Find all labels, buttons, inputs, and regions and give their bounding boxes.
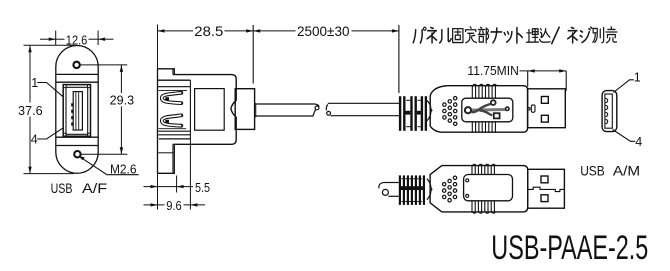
bottom plug cable stub top (384, 182, 399, 184)
side view flange plate (158, 69, 175, 174)
spring contact upper (162, 93, 182, 103)
top plug strain relief middle band (406, 111, 411, 115)
svg-text:USB: USB (51, 181, 73, 196)
spring upper contact nub (165, 97, 169, 100)
dim 37.6 bottom arrowhead (28, 167, 31, 174)
right pin4 leader (613, 130, 636, 142)
flange back edge lower segment (172, 144, 174, 173)
bottom plug neck (427, 179, 432, 200)
dim 28.5 line seg2 (225, 30, 254, 32)
glyph ne2 (568, 28, 577, 43)
shell corner mark TR (88, 85, 91, 88)
dim 28.5 right arrowhead (246, 29, 253, 32)
dim 9.6 line seg1 (144, 204, 165, 206)
contact pin 1 (71, 103, 73, 106)
bottom shell hole lower (541, 195, 548, 202)
shell top line (158, 79, 191, 81)
ext line shell back below (189, 139, 191, 210)
right front view contacts (606, 98, 608, 123)
top plug dots pattern (443, 103, 446, 106)
top plug shell joint dot (528, 108, 530, 110)
contact pin 2 (71, 110, 73, 113)
dim 12.6 left extension line (55, 31, 57, 46)
cable left segment bottom (256, 115, 314, 117)
glyph bu (478, 27, 488, 43)
dim 2500 right arrowhead (392, 29, 399, 32)
bottom plug label plate (464, 175, 513, 201)
top plug label plate (462, 98, 513, 122)
shell right edge (189, 80, 191, 139)
right front view outer (602, 91, 617, 132)
top plug grip ribs lower (472, 122, 495, 132)
bottom plug cable stub hook (379, 183, 384, 189)
side view molded body (173, 75, 236, 145)
shell bottom inner line (158, 130, 190, 132)
top plug shell joint tab (531, 105, 535, 112)
bottom plug cable stub curl circle (382, 189, 388, 195)
plate chord line top2 (56, 81, 98, 83)
plate chord line bottom2 (56, 145, 98, 147)
dim mid extension line (252, 25, 254, 84)
bottom strain relief gap edges (401, 178, 422, 180)
svg-text:4: 4 (31, 132, 38, 146)
shell bottom line (158, 134, 190, 136)
dim 12.6 right arrowhead (98, 38, 105, 41)
glyph to (517, 28, 522, 43)
M2.6 leader arrowhead at hole (79, 156, 85, 160)
svg-text:USB: USB (580, 163, 605, 178)
dim 29.3 bottom extension line (81, 153, 127, 155)
glyph ru (440, 28, 451, 43)
dim 9.6 line seg2 (184, 204, 206, 206)
japanese note: panel fixing nut embedded / screw sold separately (413, 27, 617, 44)
dim 12.6 inner stubs (56, 38, 65, 40)
top shell hole lower (541, 115, 548, 122)
boot cable step (255, 103, 256, 116)
dim 28.5 left extension line (157, 25, 159, 69)
shell bottom outer line (159, 138, 191, 140)
flange screw hole hidden line (158, 152, 173, 154)
dim 37.6 line upper segment (29, 45, 31, 102)
bottom plug grip rib bumps upper (473, 164, 495, 165)
svg-text:M2.6: M2.6 (110, 163, 137, 177)
trident down branch (480, 111, 493, 116)
bottom plug metal shell (528, 169, 565, 208)
cable break left curl (315, 104, 320, 107)
glyph betsu (593, 28, 604, 43)
svg-text:1: 1 (31, 76, 38, 90)
svg-text:A/M: A/M (613, 163, 640, 178)
spring contact lower (162, 115, 182, 125)
svg-text:2500±30: 2500±30 (297, 24, 350, 39)
dim 5.5 line (144, 186, 194, 188)
plate chord line top1 (56, 73, 98, 75)
trident right tip circle (506, 107, 509, 110)
glyph small tsu (504, 32, 512, 43)
glyph pa (413, 27, 426, 43)
panel plate front view outline (56, 46, 98, 174)
bottom plug grip ribs lower (472, 201, 494, 212)
shell top inner line2 (158, 90, 187, 92)
dim 29.3 top arrowhead (120, 65, 123, 72)
shell top inner line (158, 86, 191, 88)
receptacle inner rect (66, 87, 88, 134)
top shell hole upper (541, 97, 548, 104)
bottom plug grip ribs upper (472, 166, 494, 175)
svg-text:28.5: 28.5 (194, 24, 223, 39)
right front view inner (605, 94, 612, 128)
dim 11.75 left ext/arrow (527, 71, 529, 87)
pin4 label leader (37, 128, 63, 139)
pin1 label leader (37, 83, 63, 98)
ext line flange front below (157, 173, 159, 209)
plate chord line bottom1 (56, 136, 98, 138)
top plug metal shell (528, 89, 566, 128)
dim 11.75 right ext (565, 71, 567, 91)
glyph na (491, 28, 502, 43)
dim 12.6 right extension line (97, 31, 99, 46)
tongue inner line 1 (75, 92, 77, 129)
svg-text:29.3: 29.3 (110, 92, 135, 107)
dim 12.6 left arrow tail (40, 38, 56, 40)
glyph ji (580, 27, 592, 42)
cable right segment top (328, 102, 399, 104)
bottom plug strain relief bars (399, 175, 401, 205)
top plug grip rib bumps upper (473, 84, 496, 85)
svg-text:5.5: 5.5 (195, 180, 210, 195)
dim 2500 left arrowhead (253, 29, 260, 32)
top plug strain relief gap edges (406, 99, 410, 101)
trident left circle (465, 107, 471, 113)
svg-text:USB-PAAE-2.5: USB-PAAE-2.5 (491, 229, 648, 268)
cable break right curl (326, 104, 327, 110)
label rivet lower (466, 194, 469, 197)
dim 12.6 right arrow tail (98, 38, 113, 40)
USB A/F receptacle outer shell front (63, 85, 90, 137)
dim 11.75 line (520, 70, 567, 72)
dim 29.3 line lower segment (120, 106, 122, 154)
dim 28.5 left arrowhead (158, 29, 165, 32)
glyph ne (427, 28, 436, 43)
svg-text:11.75MIN: 11.75MIN (467, 63, 518, 78)
glyph mai (527, 29, 539, 42)
M2.6 leader line (80, 157, 139, 175)
cable right segment bottom (331, 115, 399, 117)
dim 29.3 top extension line (81, 64, 128, 66)
label rivet upper (466, 179, 469, 182)
dim 5.5 right arrowhead (177, 185, 184, 188)
glyph ko (enclosure) (453, 29, 463, 43)
trident down square (494, 113, 500, 118)
dim 29.3 line upper segment (120, 65, 122, 93)
contact pin 4 (71, 123, 73, 126)
bottom plug body outline (430, 166, 528, 212)
receptacle tongue (73, 92, 82, 130)
right pin1 leader (614, 80, 634, 93)
svg-text:4: 4 (635, 135, 642, 149)
dim 29.3 bottom arrowhead (120, 147, 123, 154)
dim 2500 line seg2 (352, 30, 399, 32)
dim 2500 right extension line (398, 25, 400, 93)
cable left segment top (256, 103, 315, 105)
tongue inner line 2 (78, 92, 80, 129)
top plug strain relief bars (399, 96, 401, 131)
bottom mounting hole M2.6 (74, 151, 80, 157)
flange back edge upper segment (172, 69, 174, 75)
top plug body outline (430, 86, 527, 133)
dim 37.6 bottom extension line (24, 173, 75, 175)
bottom strain relief middle band (401, 186, 423, 190)
dim 5.5 left arrowhead (151, 185, 158, 188)
top plug neck (427, 100, 432, 121)
body inner window (195, 89, 225, 131)
svg-text:37.6: 37.6 (18, 103, 43, 118)
shell corner mark TL (63, 85, 66, 88)
glyph bai (606, 27, 617, 43)
cable boot rect (235, 89, 254, 130)
dim 2500 line seg1 (253, 30, 295, 32)
bottom plug cable stub bottom (388, 195, 398, 197)
trident up circle (491, 100, 496, 105)
trident up branch (472, 104, 491, 112)
glyph tei (466, 27, 477, 43)
bottom shell hole upper (541, 176, 548, 183)
spring lower contact nub (165, 120, 169, 123)
slash separator (552, 27, 559, 43)
shell corner mark BL (63, 133, 66, 136)
dim 28.5 line seg1 (158, 30, 194, 32)
shell bottom inner line2 (159, 128, 187, 130)
contact pin 3 (71, 116, 73, 119)
svg-text:A/F: A/F (82, 181, 107, 196)
top plug grip ribs upper (472, 86, 495, 98)
ext line flange back below (176, 176, 178, 193)
dim 37.6 top extension line (24, 44, 75, 46)
dim 9.6 right arrowhead (190, 203, 197, 206)
dim 37.6 top arrowhead (28, 45, 31, 52)
dim 9.6 left arrowhead (151, 203, 158, 206)
svg-text:1: 1 (634, 71, 641, 85)
bottom plug dots pattern (443, 183, 446, 186)
dim 37.6 line lower segment (29, 117, 31, 174)
dim 12.6 left arrowhead (49, 38, 56, 41)
svg-text:9.6: 9.6 (166, 198, 182, 213)
bottom plug grip rib bumps lower (473, 212, 495, 213)
glyph komi (540, 29, 550, 43)
shell corner mark BR (88, 133, 91, 136)
top mounting hole (73, 62, 79, 68)
USB trident logo main line (471, 108, 506, 112)
bottom shell seam with latch notches (528, 187, 565, 191)
